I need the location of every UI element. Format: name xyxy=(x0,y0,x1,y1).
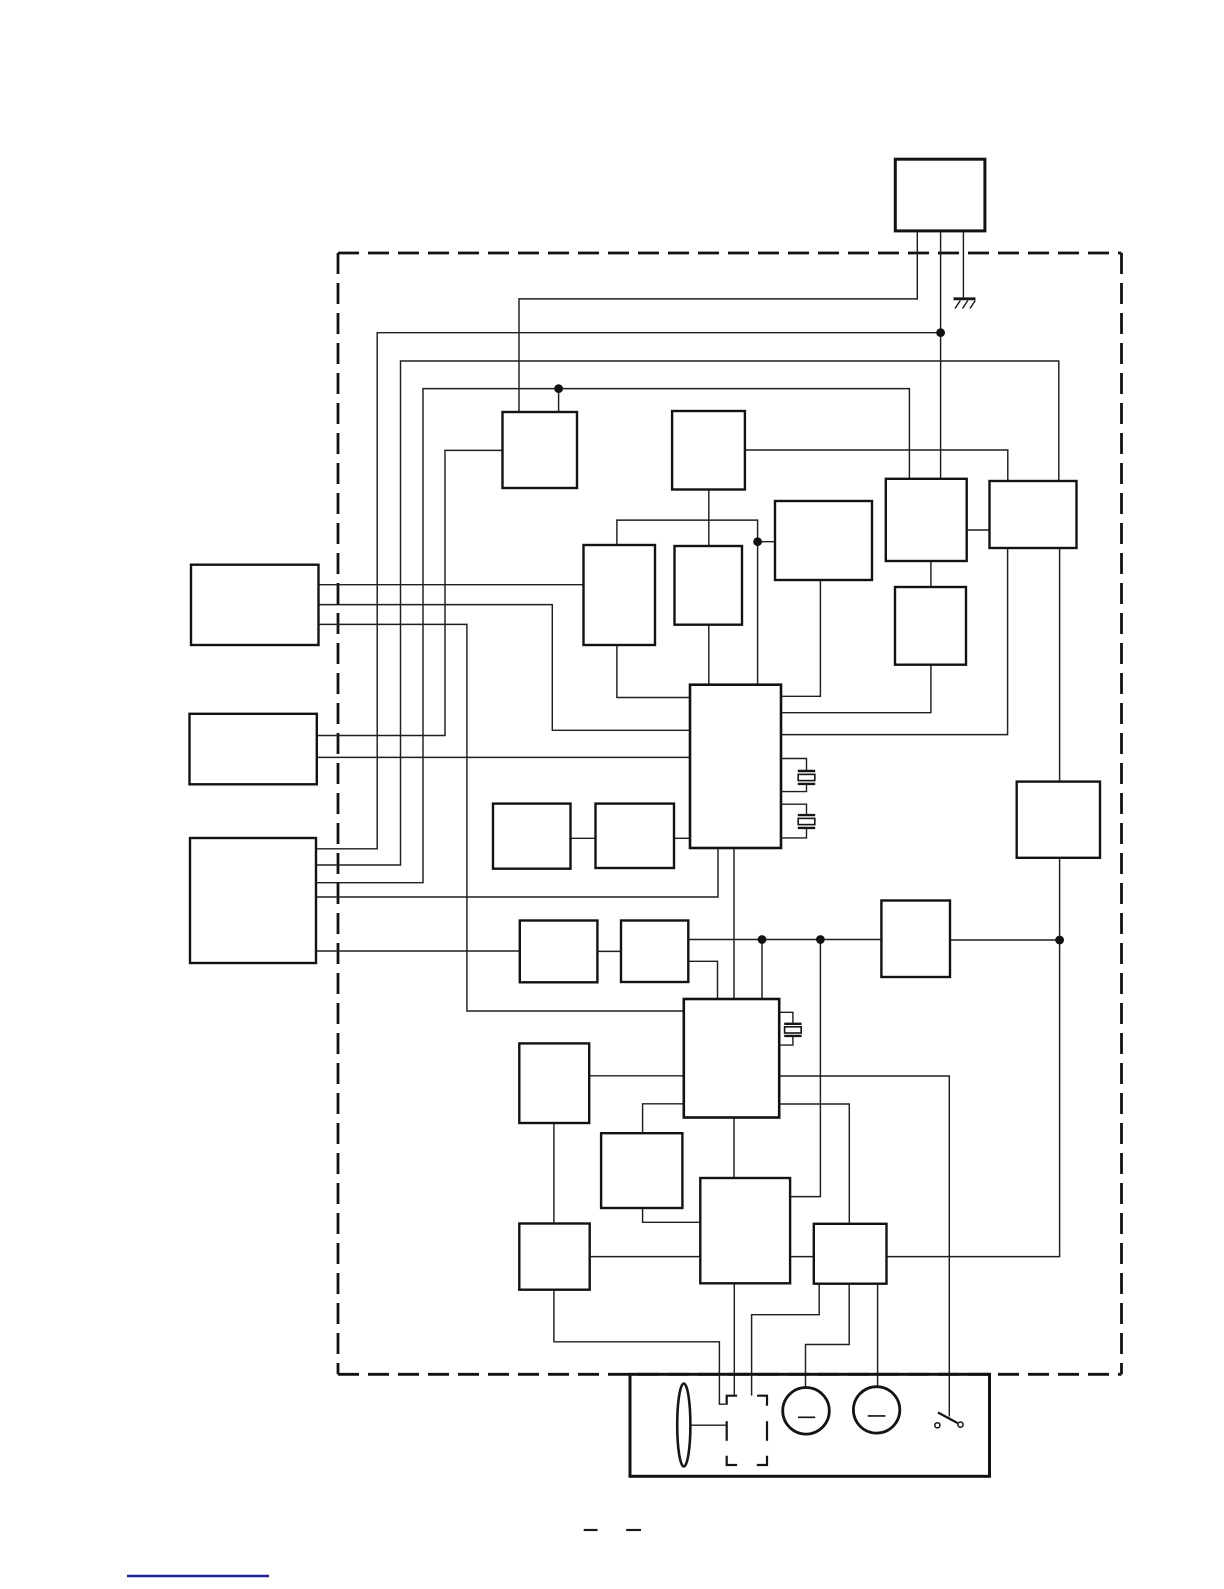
wire block R1 bottom to junction xyxy=(1059,858,1061,940)
crystal X1 xyxy=(781,759,815,792)
wire block D right to block E left xyxy=(967,529,990,531)
wire block L1 pin c to IC U2 left pin1 xyxy=(319,624,684,1011)
IC U2 xyxy=(684,999,779,1118)
wire junction to block C left xyxy=(758,541,775,543)
block H xyxy=(895,587,966,665)
wire block X bottom to connector J1 top pin1 xyxy=(733,1283,735,1395)
wire IC U2 right pin2 to switch SW1 xyxy=(779,1076,949,1417)
speaker SP2 xyxy=(853,1387,899,1433)
wire block L1 pin b to IC U1 left pin2 xyxy=(319,605,691,731)
block F xyxy=(584,545,656,645)
footer rule xyxy=(127,1575,269,1577)
wire block L3 pin d to IC U1 bottom pin1 xyxy=(316,848,718,897)
wire block Y bottom pin2 to speaker SP1 xyxy=(806,1284,850,1388)
block V xyxy=(601,1133,682,1208)
wire block B right to block E top pin1 xyxy=(745,450,1008,481)
ground xyxy=(954,299,976,309)
wire block S1 to block S2 xyxy=(597,950,621,952)
wire IC U1 right pin3 to block E bottom pin1 xyxy=(781,548,1008,735)
wire block L1 pin a to block F left xyxy=(319,584,584,586)
wire block L2 pin a to block A left xyxy=(317,450,503,735)
wire block W bottom to connector J1 left xyxy=(554,1290,726,1405)
wire block T right to IC U2 left pin2 xyxy=(589,1075,684,1077)
junction net top-box/D/L3a xyxy=(936,328,945,337)
wire block G bottom to IC U1 top pin1 xyxy=(708,625,710,685)
junction net L3c/A/D xyxy=(554,384,563,393)
wire net D/top-box to block L3 pin a xyxy=(316,333,941,849)
wire block Y bottom pin3 to speaker SP2 xyxy=(877,1284,879,1387)
wire block L3 pin b to block E top pin2 xyxy=(316,361,1059,865)
block Y xyxy=(814,1224,887,1284)
dashed enclosure border bottom xyxy=(338,1373,1122,1376)
wire top-box pin3 to ground xyxy=(962,231,964,298)
wire block S2 right to IC U2 top pin1 xyxy=(688,961,717,999)
block S2 xyxy=(621,921,688,983)
panel (bottom) xyxy=(630,1374,990,1476)
junction net Q/R1/Y xyxy=(1055,936,1064,945)
speaker SP1 xyxy=(783,1388,830,1435)
page number dash right xyxy=(626,1529,641,1531)
wire block E bottom pin2 to block R1 top xyxy=(1059,548,1061,782)
block L2 xyxy=(190,714,317,785)
wire junction to block Y right xyxy=(887,940,1060,1257)
wire block F bottom to IC U1 left pin1 xyxy=(617,645,690,698)
wire block Q right to junction xyxy=(950,939,1060,941)
wire block V top to IC U2 left pin3 xyxy=(643,1104,684,1133)
wire block T bottom to block W top xyxy=(553,1123,555,1224)
wire block S2 right to block Q left xyxy=(688,939,881,941)
block D xyxy=(886,479,967,561)
junction net S2/X xyxy=(816,935,825,944)
IC U1 xyxy=(690,685,781,848)
wire IC U1 bottom pin2 to IC U2 top pin2 xyxy=(733,848,735,999)
block PSU (top) xyxy=(895,159,985,231)
dashed enclosure border right xyxy=(1120,253,1123,1374)
connector J1 (dashed box) xyxy=(727,1396,767,1465)
wire top-box pin1 to block A top xyxy=(519,231,917,412)
wire IC U2 bottom to block X top xyxy=(733,1118,735,1179)
dashed enclosure border left xyxy=(337,253,340,1374)
wire block D bottom to block H top xyxy=(930,561,932,587)
block W xyxy=(519,1224,589,1290)
block A xyxy=(503,412,578,488)
wire block V bottom to block X left pin1 xyxy=(643,1208,701,1222)
dashed enclosure border top xyxy=(338,252,1122,255)
wire top-box pin2 to block D top xyxy=(940,231,942,479)
switch SW1 xyxy=(935,1413,963,1428)
lens xyxy=(677,1384,690,1467)
wire block P2 to IC U1 left pin4 xyxy=(674,837,690,839)
wire junction to block A top pin2 xyxy=(558,389,560,412)
block X xyxy=(700,1178,790,1283)
wire block P1 to block P2 xyxy=(571,837,596,839)
wire block C bottom to IC U1 right pin1 xyxy=(781,580,820,696)
block L3 xyxy=(190,838,316,963)
block S1 xyxy=(520,921,598,983)
junction net S2/U2 xyxy=(758,935,767,944)
wire IC U2 right pin3 to block Y top xyxy=(779,1104,849,1224)
wire block Y bottom pin1 to connector J1 top pin2 xyxy=(752,1284,820,1396)
block B xyxy=(672,411,745,490)
block L1 xyxy=(191,565,319,645)
wire block L3 pin e to block S1 left xyxy=(316,950,520,952)
page number dash left xyxy=(584,1529,598,1531)
wire junction to IC U2 top pin3 xyxy=(761,940,763,1000)
wire block X right to block Y left xyxy=(790,1256,814,1258)
wire junction to block X right pin1 xyxy=(790,940,820,1197)
block P1 xyxy=(493,804,571,869)
wire block L2 pin b to IC U1 left pin3 xyxy=(317,756,690,758)
block C xyxy=(775,501,872,580)
wire block L3 pin c to block D top pin1 xyxy=(316,389,909,883)
block G xyxy=(675,546,743,625)
block Q xyxy=(881,901,950,978)
crystal X2 xyxy=(781,804,815,838)
block R1 xyxy=(1017,782,1100,858)
wire block W right to block X left pin2 xyxy=(590,1256,701,1258)
block T xyxy=(519,1043,589,1123)
block E xyxy=(990,481,1077,548)
wire IC U1 right pin2 to block H bottom xyxy=(781,665,931,713)
crystal X3 xyxy=(779,1012,801,1045)
wire block B bottom to block G top xyxy=(708,490,710,547)
junction net F/C/U1 xyxy=(753,537,762,546)
wire lens to connector J1 xyxy=(691,1424,726,1426)
block P2 xyxy=(596,804,675,868)
wire block F top to IC U1 top pin2 xyxy=(617,520,758,685)
